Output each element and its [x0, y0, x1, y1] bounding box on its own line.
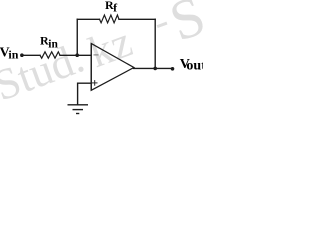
node B junction dot [153, 67, 157, 71]
op-amp U1 [91, 44, 134, 91]
resistor Rin [40, 52, 60, 58]
wire input to Rin [22, 54, 40, 56]
ground [68, 105, 89, 114]
wire feedback left vertical [76, 19, 78, 55]
node A junction dot [75, 53, 79, 57]
wire feedback right vertical [154, 19, 156, 68]
svg-text:Vin: Vin [0, 46, 19, 62]
watermark [0, 0, 213, 110]
wire feedback top left segment [77, 18, 99, 20]
resistor Rf [100, 15, 120, 23]
input terminal dot [20, 53, 24, 57]
wire Rin to inverting input [60, 54, 91, 56]
op-amp inverting input minus sign [94, 54, 99, 56]
op-amp noninverting input plus sign [92, 80, 98, 86]
wire noninverting input [78, 83, 91, 104]
svg-text:Vout: Vout [180, 57, 203, 74]
output terminal dot [171, 67, 175, 71]
wire feedback top right segment [119, 18, 155, 20]
wire output [134, 67, 173, 69]
